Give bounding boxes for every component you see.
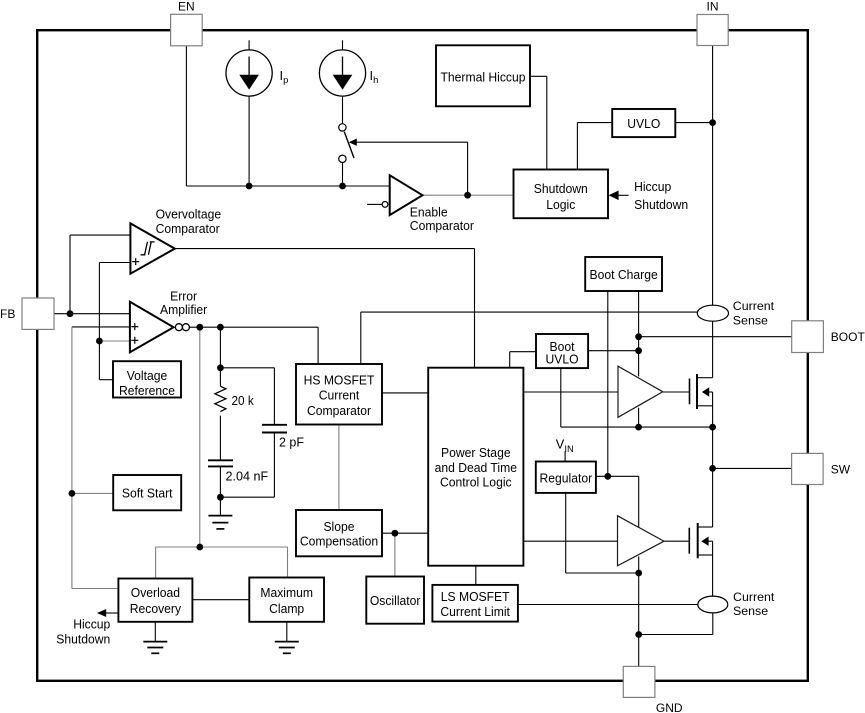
- block Maximum Clamp: [249, 578, 324, 622]
- svg-text:Comparator: Comparator: [410, 218, 475, 233]
- block Shutdown Logic: [514, 170, 609, 219]
- svg-text:UVLO: UVLO: [546, 352, 579, 367]
- switch enable hysteresis contact top: [339, 124, 346, 131]
- node SW pin wire: [709, 465, 716, 472]
- plus sign overvoltage comparator: [132, 258, 139, 265]
- svg-text:20 k: 20 k: [232, 393, 255, 408]
- arrowhead switch control: [349, 139, 357, 146]
- svg-text:and Dead Time: and Dead Time: [435, 460, 517, 475]
- svg-text:Amplifier: Amplifier: [160, 302, 208, 317]
- wire Ip top stub: [248, 40, 250, 50]
- pin EN: [171, 14, 203, 46]
- wire current sense into HS comparator: [360, 312, 362, 364]
- svg-text:Power Stage: Power Stage: [441, 445, 511, 460]
- svg-text:2.04 nF: 2.04 nF: [226, 469, 269, 484]
- wire Ih to switch: [342, 96, 344, 124]
- wire LS driver to gate: [664, 540, 689, 542]
- wire Ih top stub: [342, 40, 344, 50]
- pin GND: [623, 666, 655, 697]
- svg-text:2 pF: 2 pF: [279, 435, 304, 450]
- plus sign error amp input 1: [131, 323, 138, 330]
- node comp gnd tap: [217, 494, 224, 501]
- svg-text:Soft Start: Soft Start: [122, 486, 173, 501]
- node UVLO IN rail: [709, 119, 716, 126]
- svg-text:Hiccup: Hiccup: [634, 179, 671, 194]
- svg-text:SW: SW: [831, 462, 851, 476]
- wire enable comparator reference stub: [367, 203, 382, 205]
- svg-text:FB: FB: [0, 307, 15, 321]
- switch blade: [344, 132, 354, 158]
- svg-text:Shutdown: Shutdown: [634, 197, 688, 212]
- wire LS MOSFET current limit to current sense: [518, 604, 698, 606]
- node ground rail: [635, 631, 642, 638]
- node FB net: [67, 310, 74, 317]
- wire oscillator stub: [394, 533, 396, 576]
- wire Ip to EN net: [248, 96, 250, 186]
- current sense lower: [698, 596, 728, 613]
- arrowhead hiccup shutdown output: [97, 609, 106, 617]
- wire Boot UVLO to Power Stage: [510, 351, 536, 353]
- block Slope Compensation: [296, 510, 382, 556]
- wire error amplifier output comp node: [189, 326, 318, 328]
- hysteresis symbol: [141, 242, 155, 255]
- wire FB to overvoltage comparator: [69, 235, 71, 314]
- block Boot UVLO: [536, 334, 588, 368]
- node SW rail B: [709, 424, 716, 431]
- svg-text:Control Logic: Control Logic: [440, 474, 512, 489]
- transistor LS MOSFET: [688, 528, 690, 554]
- svg-text:Hiccup: Hiccup: [73, 617, 110, 632]
- svg-text:Logic: Logic: [546, 197, 575, 212]
- node switch EN net: [339, 183, 346, 190]
- wire overvoltage comparator output: [175, 248, 475, 250]
- svg-text:Current: Current: [733, 590, 775, 604]
- pin FB: [22, 298, 54, 329]
- node comp A: [196, 324, 203, 331]
- svg-text:Oscillator: Oscillator: [370, 593, 421, 608]
- wire power stage to LS MOSFET current limit: [475, 566, 477, 585]
- wire Vreg rail to LS driver: [596, 475, 639, 477]
- wire overload recovery to maximum clamp: [192, 599, 249, 601]
- switch contact bottom: [339, 155, 346, 162]
- node enable output branch: [464, 192, 471, 199]
- pin IN: [697, 15, 728, 46]
- block LS MOSFET Current Limit: [432, 585, 518, 622]
- wire 2pF branch lower: [273, 433, 275, 498]
- svg-text:Current: Current: [733, 299, 775, 313]
- node oscillator tap: [392, 530, 399, 537]
- wire slope compensation output: [382, 532, 428, 534]
- svg-text:Maximum: Maximum: [260, 585, 313, 600]
- node Vref tap: [96, 338, 103, 345]
- block UVLO: [612, 109, 675, 137]
- wire comp node to compensation network: [219, 327, 221, 386]
- wire SW node chain upper: [712, 392, 714, 468]
- wire slope net to Maximum Clamp: [287, 547, 289, 578]
- svg-text:Boot Charge: Boot Charge: [590, 267, 658, 282]
- wire lower current sense to ground rail: [712, 613, 714, 635]
- op-amp enable comparator: [390, 175, 423, 215]
- current source Ip: [226, 50, 272, 96]
- node boot UVLO tap: [635, 347, 642, 354]
- svg-text:Thermal Hiccup: Thermal Hiccup: [441, 70, 526, 85]
- wire 2pF branch upper: [273, 368, 275, 425]
- node regulator ground: [635, 570, 642, 577]
- wire LS source down: [712, 541, 714, 596]
- wire HS MOSFET comparator output: [382, 392, 428, 394]
- svg-text:Recovery: Recovery: [130, 601, 182, 616]
- block HS MOSFET Current Comparator: [296, 364, 382, 425]
- op-amp overvoltage comparator: [130, 223, 174, 273]
- node Vreg boot charge: [604, 473, 611, 480]
- wire HS driver bottom rail: [638, 408, 640, 427]
- resistor R comp 20k: [215, 386, 226, 411]
- svg-text:Comparator: Comparator: [156, 221, 221, 236]
- svg-text:Sense: Sense: [733, 314, 768, 328]
- block Power Stage and Dead Time Control Logic: [428, 368, 523, 566]
- wire EN net horizontal: [186, 185, 389, 187]
- op-amp error amplifier U-EA: [130, 302, 174, 353]
- current sense upper: [697, 305, 728, 321]
- node slope net: [196, 544, 203, 551]
- block Oscillator: [366, 577, 424, 624]
- wire 2.04nF cap to ground: [219, 466, 221, 515]
- svg-text:UVLO: UVLO: [627, 116, 660, 131]
- wire current sense to HS drain: [712, 321, 714, 378]
- wire Boot Charge to BOOT rail: [638, 291, 640, 376]
- wire IN rail down to current sense: [712, 46, 714, 306]
- svg-text:Slope: Slope: [323, 519, 354, 534]
- wire Thermal Hiccup to Shutdown Logic: [530, 75, 547, 77]
- block Thermal Hiccup: [436, 45, 530, 106]
- node soft start tap: [69, 490, 76, 497]
- svg-text:LS MOSFET: LS MOSFET: [441, 589, 510, 604]
- wire UVLO to IN rail: [675, 122, 712, 124]
- wire SW node to SW pin: [713, 467, 792, 469]
- svg-text:Current Limit: Current Limit: [440, 604, 510, 619]
- wire switch control: [356, 141, 468, 143]
- wire EN pin to enable net: [185, 46, 187, 186]
- gm output circles error amplifier: [175, 324, 182, 331]
- svg-text:Shutdown: Shutdown: [534, 181, 588, 196]
- svg-text:Overload: Overload: [131, 585, 180, 600]
- wire current sense signal: [361, 311, 698, 313]
- ground maximum clamp: [286, 622, 288, 642]
- svg-text:Current: Current: [319, 388, 360, 403]
- svg-text:Clamp: Clamp: [269, 601, 304, 616]
- wire soft start net down to overload recovery: [71, 493, 73, 588]
- wire comp node down to slope net: [199, 327, 201, 547]
- current source Ih: [319, 50, 365, 96]
- wire Vref tap to error amp plus input: [99, 340, 129, 342]
- node comp R top: [217, 364, 224, 371]
- wire SW rail horizontal: [561, 426, 713, 428]
- wire HS driver to gate: [663, 391, 690, 393]
- wire enable comparator output: [423, 194, 514, 196]
- gate driver LS: [618, 516, 665, 566]
- transistor HS MOSFET: [689, 379, 691, 405]
- wire Boot Charge to Vreg rail: [607, 291, 609, 476]
- wire enable output feedback up: [467, 142, 469, 195]
- svg-text:Regulator: Regulator: [540, 470, 593, 485]
- node comp B: [217, 324, 224, 331]
- wire UVLO to Shutdown Logic: [577, 122, 612, 124]
- svg-text:BOOT: BOOT: [831, 330, 865, 344]
- block Voltage Reference: [113, 361, 181, 397]
- wire slope net horizontal: [156, 546, 288, 548]
- wire LS driver bottom rail: [638, 556, 640, 573]
- block Overload Recovery: [118, 579, 192, 622]
- ground overload recovery: [154, 622, 156, 642]
- wire resistor to 2.04nF cap: [219, 416, 221, 461]
- svg-text:Comparator: Comparator: [307, 403, 372, 418]
- block Regulator: [536, 462, 596, 493]
- wire hiccup shutdown output: [106, 612, 119, 614]
- wire SW node chain lower: [712, 468, 714, 527]
- arrowhead hiccup shutdown input: [609, 191, 619, 201]
- svg-text:Shutdown: Shutdown: [56, 631, 110, 646]
- wire VIN stub to Regulator: [564, 451, 566, 461]
- plus sign error amp input 2: [131, 337, 138, 344]
- svg-text:Sense: Sense: [733, 604, 768, 618]
- svg-text:EN: EN: [178, 0, 195, 14]
- wire Vref net to overvoltage comparator plus input: [99, 262, 130, 264]
- wire ground rail to GND pin: [638, 573, 640, 666]
- node Ip EN net: [246, 183, 253, 190]
- wire Vref to Voltage Reference box: [99, 379, 113, 381]
- svg-text:GND: GND: [656, 701, 683, 713]
- block Boot Charge: [585, 257, 662, 291]
- wire Hiccup Shutdown into Shutdown Logic: [617, 194, 628, 196]
- wire power stage to LS driver: [523, 540, 617, 542]
- wire BOOT rail to BOOT pin: [639, 336, 792, 338]
- svg-text:IN: IN: [707, 0, 719, 14]
- ground comp network: [208, 515, 232, 517]
- svg-text:Reference: Reference: [119, 383, 175, 398]
- wire comp node into HS MOSFET comparator: [317, 327, 319, 364]
- wire soft start to error amp plus input: [72, 326, 130, 328]
- block Soft Start: [113, 475, 181, 510]
- svg-text:Voltage: Voltage: [127, 368, 168, 383]
- node BOOT wire: [635, 333, 642, 340]
- pin SW: [792, 453, 824, 484]
- wire Boot UVLO right: [588, 350, 639, 352]
- wire power stage to HS driver: [523, 391, 618, 393]
- capacitor C comp 2.04nF: [208, 459, 233, 461]
- wire Boot UVLO bottom to SW rail: [560, 368, 562, 427]
- gate driver HS: [618, 366, 663, 417]
- svg-text:Overvoltage: Overvoltage: [156, 207, 222, 222]
- wire Regulator ground return: [565, 493, 567, 573]
- capacitor C hf 2pF: [262, 424, 287, 426]
- wire HS comparator to slope compensation: [338, 425, 340, 511]
- wire ground tap to 2pF branch: [220, 496, 274, 498]
- wire resistor top to 2pF branch: [220, 367, 274, 369]
- node SW rail A: [635, 424, 642, 431]
- wire FB to error amplifier: [54, 313, 130, 315]
- pin BOOT: [792, 321, 824, 353]
- inverting bubble enable comparator: [382, 202, 388, 208]
- wire switch to EN net: [342, 163, 344, 186]
- svg-text:Compensation: Compensation: [300, 533, 378, 548]
- svg-text:HS MOSFET: HS MOSFET: [304, 373, 375, 388]
- wire slope net to Overload Recovery: [155, 547, 157, 579]
- wire soft start box connection: [72, 492, 113, 494]
